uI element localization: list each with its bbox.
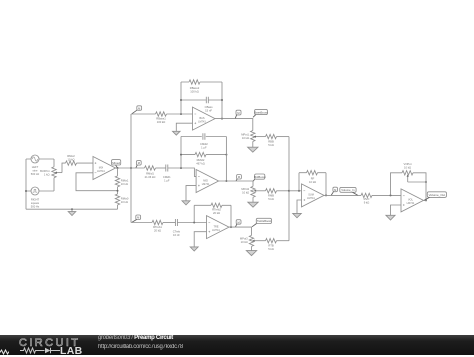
svg-text:1 µF: 1 µF — [201, 146, 207, 150]
op-amp U_MIX — [93, 157, 116, 180]
svg-text:10 kΩ: 10 kΩ — [309, 180, 316, 184]
wire bass feedback top — [181, 81, 222, 83]
label RTreb2 value — [212, 208, 221, 216]
svg-text:MPot2: MPot2 — [241, 187, 249, 191]
svg-text:M: M — [137, 216, 139, 220]
node flag MidBoost — [253, 174, 266, 181]
svg-text:RMix0: RMix0 — [121, 196, 129, 200]
node junction feedback tap — [117, 190, 119, 192]
resistor RF — [307, 171, 318, 175]
node flag TrebBoost — [252, 218, 272, 227]
wire feedback loop mixer — [76, 173, 118, 191]
resistor RBass2 — [189, 80, 200, 84]
wire left rail — [25, 159, 27, 209]
wire bass feedback right — [221, 82, 223, 119]
svg-text:CTreb: CTreb — [173, 229, 181, 233]
label RBB value — [268, 140, 274, 148]
wire bass cap branch — [181, 99, 222, 101]
node junction treble input — [193, 222, 195, 224]
wire final plus to ground — [391, 205, 402, 215]
resistor RMix0 — [115, 194, 119, 205]
wire final feedback left — [391, 173, 403, 196]
ground G3 — [248, 147, 258, 152]
node junction cap branch right — [221, 99, 223, 101]
svg-text:M: M — [238, 175, 240, 179]
svg-text:M: M — [138, 161, 140, 165]
node junction ground rail — [71, 208, 73, 210]
svg-text:M: M — [334, 188, 336, 192]
svg-text:100 kΩ: 100 kΩ — [157, 120, 166, 124]
svg-text:RIGHT: RIGHT — [31, 197, 40, 201]
node junction treble output feedback — [230, 226, 232, 228]
svg-text:MidBoost: MidBoost — [254, 175, 266, 179]
svg-text:CBass: CBass — [205, 105, 214, 109]
potentiometer MPot1 — [251, 131, 266, 142]
node flag tap B — [136, 161, 141, 168]
wire sum output — [324, 194, 361, 196]
svg-text:square: square — [31, 201, 40, 205]
source V_RIGHT — [31, 187, 39, 195]
ground G8 — [293, 213, 302, 217]
svg-text:RTreb2: RTreb2 — [212, 208, 221, 212]
op-amp U_BASS — [193, 107, 216, 130]
footer bar — [0, 335, 474, 355]
wire mid plus to ground — [186, 186, 196, 201]
svg-text:BUFPot: BUFPot — [40, 169, 50, 173]
wire MPot3 to ground — [251, 246, 253, 250]
node flag bass out — [235, 110, 241, 118]
label RMix1 value — [121, 178, 129, 186]
node junction res branch left — [180, 154, 182, 156]
node junction res branch right — [225, 154, 227, 156]
svg-text:LM741: LM741 — [198, 120, 206, 123]
decorative corner squiggle — [0, 348, 9, 355]
ground G6 — [190, 247, 198, 251]
label U_TREB — [212, 225, 220, 232]
label U_MIX — [97, 166, 105, 173]
node flag tap C — [132, 215, 141, 222]
wire treble feedback left — [193, 205, 195, 222]
svg-text:1 µF: 1 µF — [164, 179, 170, 183]
wire RMix2 to op-amp — [77, 162, 94, 164]
wire treble feedback top — [194, 204, 231, 206]
node junction final output feedback — [425, 199, 427, 201]
svg-text:RMix2: RMix2 — [67, 154, 75, 158]
svg-text:15 nF: 15 nF — [205, 108, 212, 112]
svg-text:LM741: LM741 — [307, 197, 315, 200]
svg-text:100 kΩ: 100 kΩ — [190, 89, 199, 93]
potentiometer VOPot — [402, 171, 413, 182]
wire sum plus to ground — [297, 200, 302, 213]
svg-text:Mixed: Mixed — [112, 161, 120, 165]
svg-text:RMid1: RMid1 — [146, 172, 154, 176]
svg-text:LM741: LM741 — [212, 229, 220, 232]
label CBass value — [205, 105, 214, 113]
wire treble output — [229, 227, 252, 235]
svg-text:RMB: RMB — [268, 194, 274, 198]
svg-text:RF: RF — [311, 177, 315, 181]
resistor RMB — [266, 189, 277, 193]
potentiometer BUFPot — [52, 167, 62, 178]
svg-text:VOPot: VOPot — [404, 162, 412, 166]
capacitor CMid2 — [203, 133, 205, 140]
wire wiper tie — [408, 181, 426, 183]
resistor RTreb2 — [211, 203, 222, 207]
resistor RMix1 — [115, 176, 119, 187]
label U_VOL — [407, 199, 415, 206]
label RVO value — [364, 197, 370, 205]
capacitor CBass — [206, 97, 208, 104]
svg-text:10 kΩ: 10 kΩ — [241, 240, 248, 244]
svg-text:RBass1: RBass1 — [156, 116, 166, 120]
svg-text:5 kΩ: 5 kΩ — [268, 247, 274, 251]
op-amp U_MID — [196, 170, 219, 193]
source V_LEFT — [31, 155, 39, 163]
wire between RMix1 RMix0 — [117, 187, 119, 194]
svg-text:RTreb1: RTreb1 — [153, 225, 162, 229]
wire bus1 — [130, 114, 132, 223]
label RBass1 value — [156, 116, 166, 124]
node flag Volume_Out — [424, 192, 446, 201]
svg-text:TrebleBoost: TrebleBoost — [257, 219, 272, 223]
label RMix0 value — [121, 196, 129, 204]
node junction mid output feedback — [225, 180, 227, 182]
svg-text:MPot3: MPot3 — [240, 237, 248, 241]
label RTreb1 value — [153, 225, 162, 233]
ground G5 — [248, 202, 258, 207]
svg-text:CMid1: CMid1 — [163, 175, 171, 179]
label RMB value — [268, 194, 274, 202]
resistor RMid2 — [195, 152, 206, 156]
svg-text:RTB: RTB — [268, 244, 274, 248]
wire final output — [424, 199, 428, 201]
svg-text:LM741: LM741 — [407, 202, 415, 205]
node junction left rail — [25, 190, 27, 192]
label V_LEFT value — [31, 165, 40, 176]
op-amp U_SUM — [302, 184, 325, 207]
wire bus1 to RBass1 — [131, 113, 156, 115]
logo circuit glyph — [20, 346, 60, 355]
label RMid2 value — [196, 158, 205, 166]
svg-text:21.06 kΩ: 21.06 kΩ — [145, 175, 156, 179]
svg-text:5 kΩ: 5 kΩ — [268, 197, 274, 201]
node junction final feedback — [390, 194, 392, 196]
node junction bus1 mixer out — [130, 167, 132, 169]
wire mid feedback right — [225, 137, 227, 182]
potentiometer MPot3 — [249, 235, 265, 246]
svg-text:9 kΩ: 9 kΩ — [364, 201, 370, 205]
wire bottom rail — [26, 208, 118, 210]
svg-text:Volume_In: Volume_In — [341, 188, 355, 192]
svg-text:RMid2: RMid2 — [197, 158, 205, 162]
svg-text:Volume_Out: Volume_Out — [429, 193, 446, 197]
node junction bus2 sum input — [288, 190, 290, 192]
node junction wiper tie — [425, 181, 427, 183]
wire MPot2 to ground — [252, 197, 254, 202]
wire mid feedback res branch — [181, 154, 226, 156]
svg-text:10 kΩ: 10 kΩ — [242, 136, 249, 140]
svg-text:500 Hz: 500 Hz — [31, 204, 40, 208]
ground G1 — [68, 209, 76, 215]
wire CTreb to op-amp — [177, 222, 206, 224]
svg-text:16 nF: 16 nF — [173, 233, 180, 237]
svg-text:sine: sine — [33, 169, 38, 173]
wire RTreb1 to CTreb — [163, 222, 175, 224]
wire mixer output — [116, 167, 145, 169]
node junction mixer output — [117, 167, 119, 169]
svg-text:10 kΩ: 10 kΩ — [404, 165, 411, 169]
node junction mid input — [180, 167, 182, 169]
svg-text:RVO: RVO — [364, 197, 370, 201]
label VOPot value — [404, 162, 412, 170]
resistor RMid1 — [145, 166, 156, 170]
node flag BassBoost — [253, 109, 268, 117]
capacitor CMid1 — [166, 165, 168, 172]
resistor RTB — [266, 239, 277, 243]
label V_RIGHT value — [31, 197, 40, 208]
capacitor CTreb — [175, 219, 177, 226]
label RBass2 value — [190, 86, 200, 94]
resistor RVO — [361, 193, 372, 197]
wire RTB to bus2 — [277, 240, 290, 242]
svg-text:M: M — [237, 111, 239, 115]
wire treble plus to ground — [194, 232, 206, 247]
svg-text:500 Hz: 500 Hz — [31, 172, 40, 176]
node flag sum out — [331, 187, 337, 195]
node flag treble out — [236, 220, 242, 227]
resistor RBB — [266, 134, 277, 138]
wire sum feedback top — [299, 172, 326, 174]
svg-text:10 kΩ: 10 kΩ — [121, 182, 128, 186]
svg-text:BassBoost: BassBoost — [254, 110, 268, 114]
node flag tap A — [132, 106, 142, 114]
op-amp U_VOL — [401, 189, 424, 212]
node junction bass output feedback — [221, 118, 223, 120]
svg-text:5 kΩ: 5 kΩ — [268, 143, 274, 147]
wire RBass1 to op-amp — [167, 113, 193, 115]
svg-text:MPot1: MPot1 — [241, 133, 249, 137]
node junction bass input — [180, 113, 182, 115]
node flag mid out — [236, 175, 241, 181]
wire treble feedback right — [230, 205, 232, 227]
wire mid feedback left — [180, 137, 182, 169]
svg-text:LM741: LM741 — [97, 170, 105, 173]
svg-text:M: M — [138, 106, 140, 110]
wire LEFT source leads — [26, 159, 54, 167]
label RMix2 value — [67, 154, 75, 162]
wire bus2 — [288, 137, 290, 241]
wire CMid1 to op-amp — [168, 168, 196, 176]
wire VOPot right to output — [413, 173, 426, 201]
label RTB value — [268, 244, 274, 252]
wire bass output — [215, 119, 253, 131]
node junction sum output feedback — [325, 194, 327, 196]
potentiometer MPot2 — [251, 186, 266, 197]
node flag Volume_In — [340, 187, 358, 195]
ground G4 — [182, 201, 190, 205]
svg-text:CMid2: CMid2 — [200, 142, 208, 146]
ground G9 — [386, 215, 395, 220]
label BUFPot value — [40, 169, 50, 177]
svg-text:RBB: RBB — [268, 140, 274, 144]
svg-text:LM741: LM741 — [202, 183, 210, 186]
wire wiper to RMix2 — [62, 163, 66, 173]
label MPot1 value — [241, 133, 249, 141]
resistor RMix2 — [66, 161, 77, 165]
label RF value — [309, 177, 316, 185]
wire sum feedback right — [325, 173, 327, 196]
label RMid1 value — [145, 172, 156, 180]
resistor RBass1 — [156, 112, 167, 116]
wire RMix0 to rail — [117, 205, 119, 209]
wire bus2 to op-amp — [289, 190, 302, 192]
svg-text:M: M — [238, 220, 240, 224]
label CTreb value — [173, 229, 181, 237]
svg-text:467 kΩ: 467 kΩ — [196, 162, 205, 166]
svg-text:1 kΩ: 1 kΩ — [44, 172, 50, 176]
wire output to RMix1 — [117, 168, 119, 176]
wire mid output — [219, 181, 253, 186]
ground G7 — [246, 251, 256, 256]
node junction sum feedback — [298, 190, 300, 192]
wire RBB to bus2 — [277, 136, 290, 138]
svg-text:10 kΩ: 10 kΩ — [242, 190, 249, 194]
wire sum feedback left — [298, 173, 300, 191]
wire RMB to bus2 — [277, 190, 290, 192]
svg-text:20 kΩ: 20 kΩ — [154, 229, 161, 233]
wire RIGHT source leads — [26, 178, 54, 191]
label U_SUM — [307, 194, 315, 201]
svg-text:LEFT: LEFT — [32, 165, 39, 169]
wire MPot1 to ground — [252, 142, 254, 148]
ground G2 — [173, 131, 181, 135]
node junction cap branch left — [180, 99, 182, 101]
wire RVO to op-amp — [372, 194, 401, 196]
label CMid1 value — [163, 175, 171, 183]
wire mid feedback cap branch — [181, 136, 226, 138]
wire RMid1 to CMid1 — [156, 167, 166, 169]
wire bass feedback left — [180, 82, 182, 114]
svg-text:RBass2: RBass2 — [190, 86, 200, 90]
label CMid2 value — [200, 142, 208, 150]
svg-text:10 kΩ: 10 kΩ — [67, 158, 74, 162]
label MPot3 value — [240, 237, 248, 245]
label U_BASS — [198, 117, 206, 124]
svg-text:20 kΩ: 20 kΩ — [213, 211, 220, 215]
wire bass plus to ground — [176, 123, 192, 131]
resistor RTreb1 — [152, 220, 163, 224]
wire bus1 to RTreb1 — [131, 222, 152, 224]
svg-text:RMix1: RMix1 — [121, 178, 129, 182]
op-amp U_TREB — [207, 216, 230, 239]
label MPot2 value — [241, 187, 249, 195]
svg-text:10 kΩ: 10 kΩ — [121, 200, 128, 204]
node flag Mixed — [112, 160, 121, 168]
label U_MID — [202, 179, 210, 186]
